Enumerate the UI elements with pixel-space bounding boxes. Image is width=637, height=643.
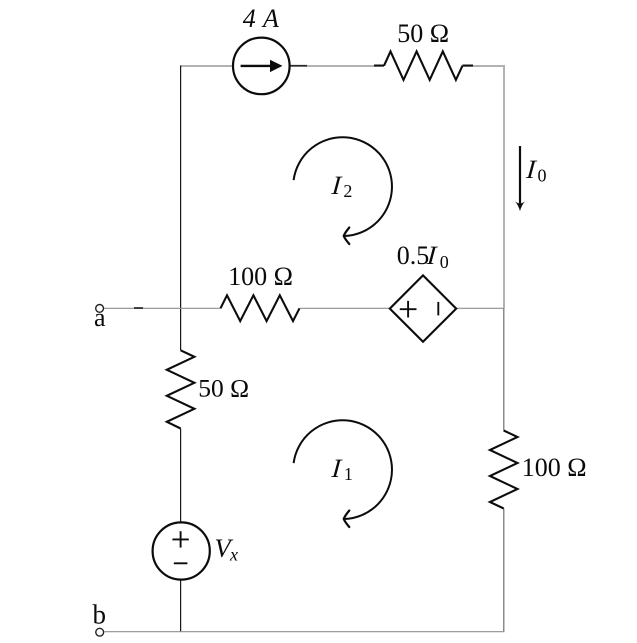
resistor 100ohm middle — [221, 295, 300, 321]
terminal a — [96, 305, 104, 313]
current arrow I0 — [515, 146, 525, 211]
wire left vertical — [180, 66, 182, 632]
svg-text:1: 1 — [344, 464, 353, 484]
label 0.5 I0 — [397, 240, 449, 272]
label I2 — [329, 170, 353, 201]
svg-text:100 Ω: 100 Ω — [522, 453, 587, 482]
label I0 — [523, 154, 546, 185]
svg-text:b: b — [93, 600, 107, 630]
wire top horizontal — [181, 65, 506, 68]
label I1 — [329, 453, 353, 484]
terminal b — [96, 628, 104, 636]
label 100 ohm right — [522, 453, 587, 482]
loop arrow I1 — [294, 420, 392, 527]
label 50 ohm left — [198, 373, 249, 402]
svg-text:A: A — [261, 4, 279, 33]
svg-text:50 Ω: 50 Ω — [198, 373, 249, 402]
resistor 50ohm left vertical — [167, 350, 195, 428]
svg-text:0: 0 — [440, 252, 449, 272]
svg-text:a: a — [94, 303, 106, 332]
wire bottom horizontal — [104, 631, 504, 633]
label 50 ohm top — [397, 19, 449, 48]
label Vx — [215, 533, 239, 564]
label a — [94, 303, 106, 332]
svg-text:x: x — [229, 544, 238, 564]
svg-text:4: 4 — [243, 4, 256, 33]
loop arrow I2 — [294, 137, 392, 244]
current source 4A — [233, 38, 290, 95]
resistor 100ohm right vertical — [490, 431, 518, 509]
voltage source Vx — [153, 522, 210, 579]
label 100 ohm middle — [228, 262, 293, 291]
svg-text:2: 2 — [343, 181, 352, 201]
dependent source 0.5 I0 (diamond) — [390, 275, 456, 341]
resistor 50ohm top — [384, 51, 463, 80]
wire middle horizontal (node a to dependent source to right wire) — [104, 307, 504, 309]
wire right vertical — [503, 65, 505, 632]
label b — [93, 600, 107, 630]
svg-text:50 Ω: 50 Ω — [397, 19, 449, 48]
svg-text:100 Ω: 100 Ω — [228, 262, 293, 291]
label 4 A — [243, 4, 279, 33]
svg-text:0: 0 — [538, 165, 547, 185]
